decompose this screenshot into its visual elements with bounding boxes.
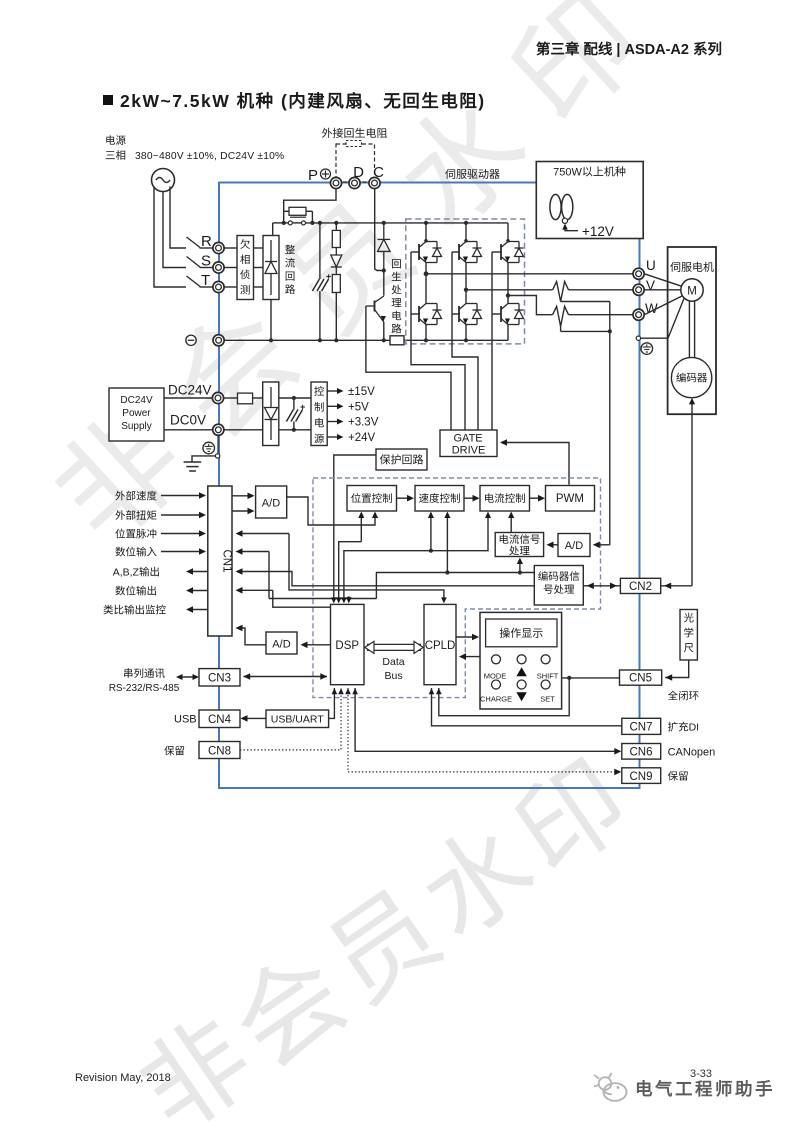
control power 控制电源 — [311, 382, 327, 446]
svg-text:2kW~7.5kW: 2kW~7.5kW — [120, 91, 237, 111]
terminal U — [633, 268, 644, 279]
svg-text:(: ( — [275, 91, 289, 111]
control fuse — [224, 397, 238, 399]
wire P to soft-charge — [284, 189, 336, 212]
regen resistor symbol (dashed) — [346, 141, 362, 147]
bleeder resistor R3 — [332, 275, 340, 293]
ground — [184, 461, 202, 463]
wire rectifier to DC- bus — [270, 300, 272, 341]
wire CN1 to AD 2 — [232, 510, 250, 512]
wire column 3 to DC- bus — [507, 325, 509, 341]
CN1 input 数位输入 — [115, 547, 125, 557]
CN4 box — [199, 710, 240, 728]
svg-text:U: U — [646, 258, 656, 273]
CN5 box — [620, 670, 662, 685]
wire DSP to position control — [339, 542, 362, 598]
optical scale 光学尺 — [680, 610, 697, 661]
svg-text:Data: Data — [382, 656, 404, 668]
fan icon — [550, 194, 561, 219]
svg-text:CN4: CN4 — [208, 714, 232, 726]
wire U to motor — [644, 274, 681, 286]
wire CN3 to DSP — [244, 676, 328, 678]
wire DSP to CN6 — [355, 688, 616, 751]
CN2 box — [620, 578, 660, 593]
wire CN1 to AD 1 — [232, 495, 250, 497]
label 保留 CN9 — [668, 771, 678, 781]
servo drive enclosure (blue box) — [219, 183, 640, 789]
wire encoder-signal to CN2 — [583, 585, 620, 587]
wire V to motor — [644, 289, 681, 291]
svg-text:380~480V ±10%, DC24V ±10%: 380~480V ±10%, DC24V ±10% — [135, 151, 284, 162]
svg-text:DRIVE: DRIVE — [452, 445, 486, 457]
terminal W — [633, 309, 644, 320]
wires diode box to control supply — [279, 397, 311, 399]
phase-loss detector 欠相侦测 — [237, 236, 254, 300]
svg-text:A/D: A/D — [262, 498, 280, 510]
PE circle symbol — [203, 442, 215, 454]
wire current signal to current control — [510, 515, 512, 533]
label 电源/三相 supply spec — [106, 135, 115, 144]
arrow CPLD to keypad — [456, 636, 474, 638]
protection circuit 保护回路 — [376, 449, 427, 470]
svg-text:RS-232/RS-485: RS-232/RS-485 — [109, 683, 180, 694]
page header — [537, 42, 550, 55]
rectifier 整流回路 — [263, 236, 279, 300]
CN8 box — [199, 742, 240, 759]
svg-text:SET: SET — [540, 695, 555, 704]
svg-text:DI: DI — [689, 722, 700, 734]
wire UART to CN4 — [244, 717, 267, 719]
W sense wire — [560, 326, 562, 331]
CN1 output 数位输出 — [115, 586, 125, 596]
terminal DC24V — [212, 392, 223, 403]
fan +12V wire — [565, 228, 578, 231]
wire CN1 pulse to CPLD — [289, 534, 444, 601]
svg-text:PWM: PWM — [556, 493, 584, 505]
svg-text:CHARGE: CHARGE — [480, 695, 512, 704]
current control 电流控制 — [480, 486, 530, 512]
serial double arrow — [179, 676, 196, 678]
IGBT Q6 bottom — [500, 306, 502, 322]
bleeder resistor R2 — [335, 223, 337, 231]
svg-text:SHIFT: SHIFT — [537, 672, 559, 681]
terminal V — [633, 284, 644, 295]
column 2 mid wire — [465, 263, 467, 304]
earth wire — [215, 454, 219, 458]
svg-text:CN9: CN9 — [630, 771, 653, 783]
arrow AD to current signal — [550, 544, 559, 546]
svg-text:GATE: GATE — [454, 433, 483, 445]
feedback bus 1 — [376, 573, 534, 599]
minus symbol — [186, 335, 196, 345]
svg-text:USB: USB — [174, 714, 197, 726]
gate rail 2 — [452, 252, 478, 430]
regen diode D3 — [383, 223, 385, 240]
wire source to S — [163, 192, 186, 268]
svg-text:CN5: CN5 — [629, 673, 652, 685]
CN1 input 外部扭矩 — [115, 510, 125, 520]
svg-text:CN1: CN1 — [221, 549, 233, 572]
wire DSP to AD monitor — [304, 644, 331, 646]
wire protection to DSP — [334, 455, 376, 598]
svg-text:DC24V: DC24V — [120, 395, 153, 406]
terminal DC0V — [213, 424, 224, 435]
CN1 input 外部速度 — [115, 491, 125, 501]
wire R to detector — [224, 247, 237, 249]
terminal minus — [213, 335, 224, 346]
current sense vertical — [609, 302, 611, 545]
svg-text:CN3: CN3 — [208, 673, 231, 685]
wire source to T — [154, 187, 186, 288]
wire DC+ to column 3 — [507, 223, 509, 242]
USB/UART box — [266, 710, 329, 728]
label 保留 CN8 — [164, 746, 174, 756]
inverter dashed box — [406, 219, 525, 344]
wire CN8 to DSP (dotted) — [240, 688, 341, 750]
svg-text:T: T — [201, 272, 210, 289]
terminal T — [213, 281, 224, 292]
motor M — [681, 279, 703, 301]
gate drive box — [440, 430, 497, 457]
encoder cable — [691, 404, 693, 586]
CN7 box — [622, 718, 661, 734]
svg-text:CN8: CN8 — [208, 746, 231, 758]
IGBT Q4 bottom — [418, 306, 420, 322]
arrow speed to current — [464, 497, 475, 499]
wire CPLD to CN7 — [432, 688, 622, 726]
control power outputs — [327, 390, 338, 392]
IGBT Q2 top — [458, 244, 460, 260]
regen transistor Q7 — [383, 271, 385, 296]
display 操作显示 — [486, 619, 557, 647]
soft-charge resistor — [284, 210, 289, 212]
svg-text:±15V: ±15V — [348, 386, 375, 398]
CN1 input 位置脉冲 — [115, 529, 125, 539]
V phase wire with current sensor — [466, 289, 553, 291]
IGBT Q5 bottom — [458, 306, 460, 322]
motor frame ground circle — [636, 336, 640, 340]
logo bird — [594, 1073, 627, 1101]
svg-text:750W: 750W — [553, 167, 582, 179]
wire PSU to DC0V terminal — [164, 429, 213, 431]
speed control 速度控制 — [415, 486, 464, 512]
svg-text:DC0V: DC0V — [170, 413, 206, 428]
IGBT Q1 top — [418, 244, 420, 260]
fan unit box 750W以上机种 — [536, 162, 643, 239]
CN6 box — [622, 744, 661, 760]
data bus arrows — [371, 644, 374, 650]
arrow position to speed — [397, 497, 410, 499]
switch S — [187, 257, 201, 268]
svg-text:MODE: MODE — [484, 672, 507, 681]
DC24V power supply box — [109, 388, 164, 441]
DSP top arrows — [333, 598, 335, 601]
wire AD to position control — [287, 497, 375, 525]
arrow keypad to CPLD — [462, 656, 480, 658]
CN1 output 类比输出监控 — [103, 605, 113, 615]
svg-text:CN6: CN6 — [630, 747, 653, 759]
svg-text:DSP: DSP — [335, 640, 359, 652]
svg-text:| ASDA-A2: | ASDA-A2 — [612, 42, 693, 58]
encoder signal processing 编码器信号处理 — [534, 566, 583, 606]
gate rail 1 — [411, 252, 465, 430]
svg-text:Power: Power — [122, 408, 151, 419]
arrow sense to AD — [596, 544, 610, 546]
terminal R — [213, 242, 224, 253]
encoder 编码器 — [671, 357, 711, 397]
gate rail 3 — [491, 252, 493, 430]
svg-text:DC24V: DC24V — [168, 383, 212, 398]
svg-text:A/D: A/D — [565, 540, 583, 552]
svg-text:CN2: CN2 — [629, 581, 652, 593]
U phase wire — [426, 273, 633, 275]
wire source to R — [170, 187, 186, 249]
label 外接回生电阻 — [322, 128, 332, 138]
wire CPLD to CN5 — [439, 678, 569, 716]
svg-text:M: M — [687, 286, 697, 298]
wire DSP to CN9 (dotted) — [347, 688, 349, 772]
CN1 connector — [208, 486, 232, 636]
wire DSP to speed/current control — [344, 515, 488, 599]
wire T to detector — [224, 286, 237, 288]
current signal processing 电流信号处理 — [495, 533, 543, 557]
V sense wire — [561, 301, 610, 303]
switch R — [187, 237, 201, 248]
wire ground to motor — [641, 299, 684, 339]
terminal C — [369, 177, 380, 188]
terminal D — [349, 177, 360, 188]
switch T — [187, 276, 201, 287]
wire column 2 to DC- bus — [465, 325, 467, 341]
PWM block — [546, 486, 595, 512]
A/D input box — [256, 486, 287, 518]
wire CN1 digital input — [268, 552, 270, 599]
wire W to motor — [644, 296, 682, 315]
servo motor box 伺服电机 — [668, 247, 716, 414]
wire PWM to gate drive — [503, 443, 569, 485]
shunt box — [390, 336, 404, 345]
column 3 mid wire — [507, 263, 509, 304]
svg-text:CN7: CN7 — [630, 722, 653, 734]
logo text — [637, 1080, 652, 1096]
A/D monitor box — [266, 632, 297, 654]
svg-text:V: V — [646, 278, 655, 293]
svg-text:+3.3V: +3.3V — [348, 417, 379, 429]
wire rectifier to relay — [272, 223, 274, 236]
bleeder diode D2 — [335, 248, 337, 256]
CN3 box — [199, 669, 240, 686]
svg-text:A/D: A/D — [272, 639, 290, 651]
A/D current — [558, 534, 590, 557]
svg-text:): ) — [478, 91, 485, 111]
relay contact — [283, 211, 285, 223]
position control 位置控制 — [347, 486, 397, 512]
terminal P — [330, 177, 341, 188]
label 扩充DI — [668, 722, 678, 732]
terminal S — [213, 262, 224, 273]
control cap C2 — [293, 398, 295, 430]
svg-text:+5V: +5V — [348, 401, 369, 413]
motor-encoder shaft — [688, 301, 690, 357]
svg-text:3-33: 3-33 — [690, 1068, 712, 1080]
wire S to detector — [224, 267, 237, 269]
wire C terminal down — [375, 189, 384, 271]
svg-text:+24V: +24V — [348, 432, 376, 444]
svg-text:Revision May, 2018: Revision May, 2018 — [75, 1072, 171, 1084]
feedback bus 2 — [269, 598, 376, 600]
wire column 1 to DC- bus — [425, 325, 427, 341]
label 串列通讯 RS-232/RS-485 — [124, 668, 132, 678]
regen gate wire — [366, 306, 451, 430]
label 回生处理电路 — [392, 259, 401, 268]
svg-text:R: R — [201, 233, 212, 250]
svg-text:USB/UART: USB/UART — [271, 714, 324, 726]
CN9 box — [622, 768, 661, 784]
DC+ bus — [306, 222, 508, 224]
keypad buttons — [492, 655, 501, 664]
wire optical scale to CN5 — [665, 660, 689, 678]
control dashed region — [313, 478, 601, 698]
wire DC0V to diode box — [224, 429, 263, 431]
svg-text:CPLD: CPLD — [425, 640, 456, 652]
wire encoder signal to CN1 (ABZ out) — [239, 572, 534, 586]
svg-text:A,B,Z: A,B,Z — [113, 567, 140, 579]
svg-text:Bus: Bus — [385, 670, 403, 682]
wire AD monitor to CN1 — [239, 628, 266, 645]
wire UART to DSP — [329, 688, 335, 718]
IGBT Q3 top — [500, 244, 502, 260]
svg-text:S: S — [201, 253, 211, 270]
external regen resistor dashed box — [336, 144, 375, 182]
svg-text:CANopen: CANopen — [668, 747, 716, 759]
wire DC+ to column 2 — [465, 223, 467, 242]
AC source G1 — [152, 169, 175, 192]
wires detector to rectifier — [254, 247, 264, 249]
CPLD box — [424, 604, 456, 684]
svg-text:P: P — [308, 167, 318, 184]
wire PSU to DC24V terminal — [164, 397, 213, 399]
wire encoder cable to CN2 — [661, 585, 692, 587]
wire CN1 digital output — [273, 590, 331, 607]
arrow current to PWM — [530, 497, 541, 499]
DC- bus wire right — [404, 339, 508, 341]
DSP box — [331, 604, 365, 684]
svg-text:+12V: +12V — [582, 224, 614, 239]
control diode box — [263, 382, 279, 446]
bus capacitor C1 — [319, 223, 321, 340]
DC- bus wire — [224, 339, 390, 341]
label 伺服驱动器 — [445, 169, 455, 179]
label 全闭环 — [668, 691, 678, 700]
wire DC+ to column 1 — [425, 223, 427, 242]
W phase wire with current sensor — [508, 296, 553, 315]
wire keypad to CN5 — [562, 677, 620, 679]
svg-text:Supply: Supply — [121, 421, 152, 432]
PE symbol — [641, 343, 653, 355]
column 1 mid wire — [425, 263, 427, 304]
keypad box — [480, 612, 562, 709]
section title — [103, 95, 113, 105]
